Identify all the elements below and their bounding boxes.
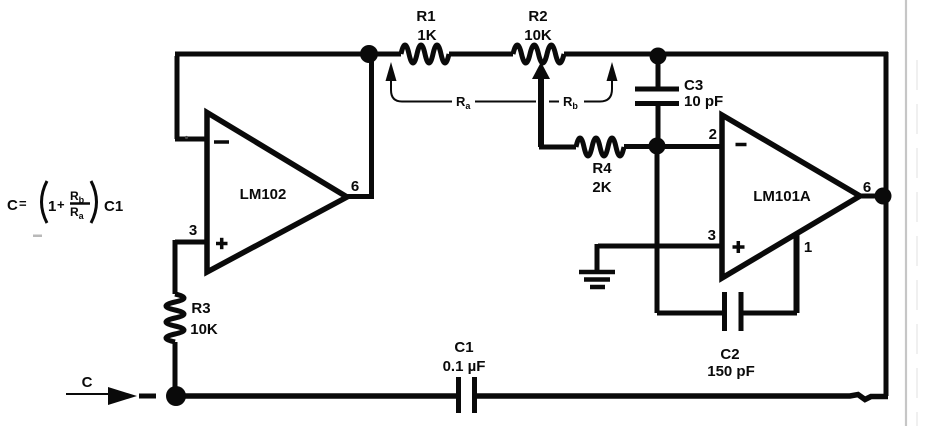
svg-text:LM102: LM102 <box>240 186 287 203</box>
svg-text:1: 1 <box>804 239 812 256</box>
svg-text:0.1 µF: 0.1 µF <box>443 358 486 375</box>
svg-text:R3: R3 <box>191 300 210 317</box>
svg-text:2K: 2K <box>592 179 611 196</box>
svg-text:10K: 10K <box>190 321 218 338</box>
svg-text:R4: R4 <box>592 160 612 177</box>
svg-text:C2: C2 <box>720 346 739 363</box>
svg-text:=: = <box>19 196 27 211</box>
svg-text:6: 6 <box>863 179 871 196</box>
svg-text:LM101A: LM101A <box>753 188 811 205</box>
svg-text:1: 1 <box>48 198 56 215</box>
svg-text:C3: C3 <box>684 77 703 94</box>
svg-text:R2: R2 <box>528 8 547 25</box>
svg-text:C: C <box>82 374 93 391</box>
svg-text:2: 2 <box>709 126 717 143</box>
svg-text:150 pF: 150 pF <box>707 363 755 380</box>
svg-text:R1: R1 <box>416 8 435 25</box>
svg-text:6: 6 <box>351 178 359 195</box>
svg-text:+: + <box>57 197 65 212</box>
svg-text:C: C <box>7 197 18 214</box>
svg-text:1K: 1K <box>417 27 436 44</box>
svg-text:10K: 10K <box>524 27 552 44</box>
svg-text:10 pF: 10 pF <box>684 93 723 110</box>
svg-text:3: 3 <box>708 227 716 244</box>
svg-text:3: 3 <box>189 222 197 239</box>
svg-text:C1: C1 <box>104 198 123 215</box>
svg-text:C1: C1 <box>454 339 473 356</box>
